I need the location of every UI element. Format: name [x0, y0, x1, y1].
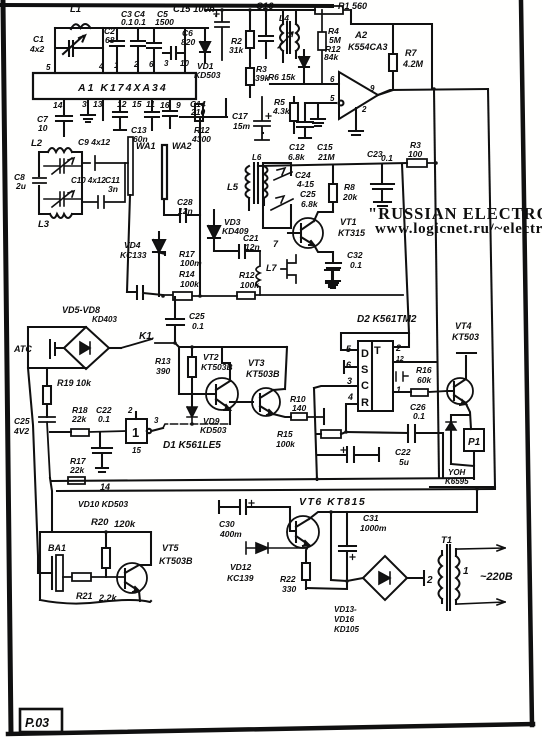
svg-text:R1 560: R1 560 — [338, 1, 367, 11]
svg-text:4x2: 4x2 — [29, 44, 44, 54]
svg-text:12: 12 — [117, 99, 127, 109]
wire WA1 down — [127, 195, 130, 292]
svg-text:C12: C12 — [289, 142, 305, 152]
C15 plus sign — [214, 12, 219, 17]
wire D1 out to VD9 dashdot — [163, 424, 230, 428]
capacitor C6 — [163, 28, 185, 73]
C31 plus sign — [350, 555, 355, 560]
svg-text:4: 4 — [98, 62, 104, 71]
svg-text:VT5: VT5 — [162, 543, 180, 553]
svg-text:A2: A2 — [354, 30, 368, 41]
diode VD3 — [208, 210, 220, 251]
junction dot R2 rail — [248, 8, 252, 12]
junction dot opamp out — [432, 87, 436, 91]
wire R22 to bridge — [306, 512, 363, 589]
svg-text:D2 K561TM2: D2 K561TM2 — [357, 314, 417, 325]
svg-text:VD5-VD8: VD5-VD8 — [62, 305, 100, 315]
wire bridge2 to T1 — [407, 571, 424, 585]
wire C9 to WA1 — [82, 156, 128, 170]
svg-text:R16: R16 — [416, 365, 432, 375]
diode VD4 zener — [153, 232, 165, 296]
transistor VT4 — [447, 378, 473, 404]
svg-text:D: D — [361, 348, 369, 360]
border frame bottom — [8, 724, 533, 734]
VT6 emitter down — [306, 545, 309, 563]
long vertical x200 — [199, 133, 201, 296]
FET VT7 — [281, 255, 296, 283]
resistor R13 390 — [188, 347, 196, 407]
antenna bar WA2 — [162, 145, 167, 199]
resistor R4 5M — [318, 10, 326, 84]
resistor R19 10k — [43, 368, 51, 417]
D1 output bubble — [147, 428, 163, 433]
svg-text:84k: 84k — [324, 52, 339, 62]
resistor R3b 39k — [246, 64, 254, 97]
svg-text:VD12: VD12 — [230, 562, 252, 572]
wire WA2 to C28 — [164, 199, 180, 215]
op-amp input wire lower with bubble — [305, 101, 344, 106]
svg-text:VD4: VD4 — [124, 240, 141, 250]
svg-text:4300: 4300 — [191, 134, 211, 144]
resistor R12 — [237, 292, 403, 299]
resistor R5 — [290, 97, 298, 133]
svg-text:C22: C22 — [395, 447, 411, 457]
wire collector to C31 — [346, 512, 348, 546]
VT4 emitter to relay — [451, 404, 471, 464]
svg-text:4-15: 4-15 — [296, 179, 314, 189]
svg-text:C15 100n: C15 100n — [173, 4, 215, 15]
transistor VT5 — [117, 563, 147, 593]
svg-text:0.1: 0.1 — [350, 260, 362, 270]
svg-text:6: 6 — [346, 360, 352, 370]
bridge bottom wire — [28, 367, 86, 369]
svg-text:3: 3 — [154, 416, 159, 425]
VT2 emitter down — [229, 409, 231, 424]
junction dot C16 rail — [264, 8, 268, 12]
svg-text:VT4: VT4 — [455, 321, 472, 331]
svg-text:KD105: KD105 — [334, 625, 359, 634]
resistor R22 330 — [302, 563, 310, 589]
capacitor C5 — [147, 28, 161, 73]
svg-text:ATC: ATC — [13, 344, 32, 354]
svg-text:C30: C30 — [219, 519, 235, 529]
ground x255 — [254, 120, 256, 122]
wire pin4 to C26 — [346, 432, 408, 433]
left vertical x52 — [50, 478, 52, 532]
small box right of L5 — [263, 163, 291, 228]
svg-text:KT503: KT503 — [452, 332, 479, 342]
svg-text:KD403: KD403 — [92, 315, 117, 324]
svg-text:BA1: BA1 — [48, 543, 66, 553]
svg-text:7: 7 — [273, 239, 279, 249]
transistor VT4 internals — [447, 379, 466, 405]
wire R18 row — [50, 431, 71, 433]
capacitor C16 — [259, 10, 273, 58]
svg-text:0.1: 0.1 — [413, 411, 425, 421]
svg-text:VD10 KD503: VD10 KD503 — [78, 499, 128, 509]
capacitor C28 — [180, 209, 200, 222]
resistor R10 140 — [291, 413, 323, 420]
capacitor C11 — [82, 163, 125, 208]
VT1 emitter to C32 — [314, 245, 333, 252]
svg-text:R14: R14 — [179, 269, 195, 279]
transformer L5 — [246, 163, 268, 210]
svg-text:330: 330 — [282, 584, 296, 594]
VT3 collector up — [273, 389, 285, 390]
svg-text:L6: L6 — [252, 153, 262, 162]
transistor VT3 internals — [260, 390, 273, 415]
svg-text:22k: 22k — [69, 465, 85, 475]
wire top supply rail y10 — [205, 9, 315, 11]
relay bottom wire — [451, 451, 474, 479]
border frame right — [521, 1, 532, 725]
svg-text:T1: T1 — [441, 535, 452, 546]
svg-text:WA2: WA2 — [172, 141, 192, 151]
resistor R20 120k vertical — [102, 532, 110, 577]
svg-text:2: 2 — [395, 343, 401, 353]
op-amp ground stub — [349, 108, 363, 135]
resistor R8 20k — [329, 165, 337, 212]
svg-text:4V2: 4V2 — [13, 426, 29, 436]
transistor VT5 internals — [125, 565, 139, 592]
junction dot C31 bottom — [345, 579, 349, 583]
junction dot rail A x317 — [315, 477, 319, 481]
resistor R16 60k — [411, 389, 447, 396]
junction dot VT2 base rail — [190, 345, 194, 349]
D1 pin2 stub — [135, 412, 137, 419]
svg-text:11: 11 — [146, 99, 155, 109]
L4 tap arrow — [278, 32, 293, 48]
svg-text:6: 6 — [149, 60, 154, 69]
svg-text:T: T — [374, 345, 381, 357]
svg-text:R22: R22 — [280, 574, 296, 584]
long mid rail y165 — [258, 163, 407, 166]
svg-text:D1 K561LE5: D1 K561LE5 — [163, 440, 221, 451]
svg-text:R6 15k: R6 15k — [268, 72, 297, 82]
feedback box R7 — [378, 24, 432, 95]
VT5 loop bottom wire — [40, 532, 151, 604]
resistor R3 100 — [407, 159, 436, 167]
junction dot x200 node — [198, 294, 202, 298]
mic ATC element — [50, 340, 64, 358]
svg-text:KT503B: KT503B — [201, 362, 233, 372]
svg-text:C31: C31 — [363, 513, 379, 523]
relay P1 box — [464, 429, 484, 451]
svg-text:L7: L7 — [266, 263, 277, 273]
capacitor C21 — [214, 245, 260, 258]
capacitor C30 — [219, 500, 290, 531]
svg-text:S: S — [361, 364, 368, 376]
capacitor under A1 x170 — [163, 99, 177, 128]
svg-text:2: 2 — [127, 406, 133, 415]
svg-text:C9 4x12: C9 4x12 — [78, 137, 110, 147]
capacitor C15 electrolytic — [215, 10, 229, 60]
svg-text:R12: R12 — [239, 270, 255, 280]
long rail A — [52, 478, 474, 481]
svg-text:R19 10k: R19 10k — [57, 378, 92, 388]
svg-text:15: 15 — [132, 99, 142, 109]
svg-text:9: 9 — [370, 84, 375, 93]
capacitor C26 — [408, 425, 443, 478]
bottom wire to V3 — [430, 486, 495, 488]
svg-text:16: 16 — [160, 100, 170, 110]
svg-text:0.1: 0.1 — [98, 414, 110, 424]
svg-text:C32: C32 — [347, 250, 363, 260]
svg-text:C25: C25 — [300, 189, 316, 199]
svg-text:100k: 100k — [180, 279, 200, 289]
small cap at pin1 — [396, 372, 408, 381]
svg-text:L3: L3 — [38, 219, 50, 230]
svg-text:C25: C25 — [189, 311, 205, 321]
svg-text:2: 2 — [361, 105, 367, 114]
tick bar right of R10 — [323, 409, 325, 424]
svg-text:390: 390 — [156, 366, 170, 376]
svg-text:2.2k: 2.2k — [98, 593, 118, 603]
capacitor C7 — [56, 99, 72, 136]
capacitor C11v variable lower — [44, 191, 82, 207]
svg-text:1: 1 — [463, 566, 469, 577]
tank L2 loop — [39, 148, 82, 218]
svg-text:KD503: KD503 — [200, 425, 227, 435]
capacitor C25 4V2 — [39, 417, 55, 478]
capacitor C23 to ground — [371, 164, 394, 206]
svg-text:4.2M: 4.2M — [402, 59, 424, 69]
capacitor C3 — [110, 28, 124, 73]
svg-text:1: 1 — [114, 61, 119, 70]
capacitor C1 variable — [56, 36, 103, 57]
D2 feedback loop — [341, 333, 409, 350]
svg-text:0.1: 0.1 — [381, 153, 393, 163]
VT5 loop top wire — [40, 531, 151, 533]
svg-text:140: 140 — [292, 403, 306, 413]
svg-text:C: C — [361, 380, 369, 392]
svg-text:3: 3 — [347, 376, 352, 386]
svg-text:L2: L2 — [31, 138, 43, 149]
transformer T1 — [439, 545, 460, 610]
diode on relay wire — [446, 422, 456, 430]
pin stub A1 bottom x103 — [102, 99, 104, 120]
svg-text:4.3k: 4.3k — [272, 106, 291, 116]
svg-text:3: 3 — [82, 99, 87, 109]
svg-text:K1.: K1. — [139, 331, 155, 342]
svg-text:KC133: KC133 — [120, 250, 147, 260]
svg-text:10: 10 — [38, 123, 48, 133]
resistor R21 2.2k — [63, 573, 125, 581]
svg-text:WA1: WA1 — [136, 141, 156, 151]
VT6 collector to rail — [309, 489, 477, 519]
svg-text:5: 5 — [330, 94, 335, 103]
mic BA1 body — [56, 555, 63, 591]
op-amp output wire — [378, 89, 488, 95]
svg-text:100m: 100m — [180, 258, 202, 268]
wire VT2 to VT3 base — [230, 401, 253, 403]
wire pin5 drop — [54, 28, 56, 73]
svg-text:21M: 21M — [317, 152, 335, 162]
long rail B — [57, 489, 495, 491]
svg-text:L1: L1 — [70, 4, 81, 15]
svg-text:C1: C1 — [33, 34, 44, 44]
VT4 collector supply — [457, 353, 476, 379]
svg-text:R20: R20 — [91, 517, 109, 528]
capacitor under A1 x120 — [113, 99, 127, 130]
op-amp A2 triangle — [339, 72, 378, 119]
svg-text:K6595: K6595 — [445, 477, 469, 486]
svg-text:12n: 12n — [245, 242, 260, 252]
bridge2 inner diode — [379, 572, 390, 584]
wire R1 to opamp supply — [351, 10, 393, 24]
svg-text:6: 6 — [330, 75, 335, 84]
svg-text:13: 13 — [93, 99, 103, 109]
svg-text:R21: R21 — [76, 591, 93, 601]
svg-text:20k: 20k — [342, 192, 358, 202]
capacitor C31 1000u — [339, 546, 356, 581]
svg-text:C15: C15 — [317, 142, 333, 152]
VT5 loop left wire — [39, 532, 41, 600]
long vertical V1 — [402, 164, 409, 333]
junction dot C15 rail — [220, 8, 224, 12]
svg-text:12: 12 — [396, 356, 404, 363]
junction dot VT6 collector rail — [475, 487, 479, 491]
switch K1 — [121, 339, 175, 348]
T1 primary top lead — [457, 545, 505, 551]
junction dot C25 node — [173, 341, 177, 345]
resistor R18 22k — [71, 429, 126, 436]
transistor VT3 — [252, 388, 280, 416]
svg-text:KT503B: KT503B — [246, 369, 280, 379]
transistor VT1 internals — [288, 221, 314, 245]
svg-text:R15: R15 — [277, 429, 293, 439]
svg-text:210: 210 — [190, 107, 205, 117]
antenna bar WA1 — [128, 137, 133, 195]
capacitor C24 — [127, 286, 163, 299]
capacitor C10 variable in L2 — [44, 158, 82, 174]
transistor VT6 — [287, 516, 319, 548]
svg-text:L4: L4 — [279, 13, 289, 23]
svg-text:14: 14 — [53, 100, 63, 110]
svg-text:C17: C17 — [232, 111, 249, 121]
bridge top wire — [28, 326, 86, 328]
svg-text:10: 10 — [180, 59, 189, 68]
IC A1 K174XA34 — [33, 73, 196, 99]
svg-text:R13: R13 — [155, 356, 171, 366]
T1 primary bottom lead — [457, 599, 505, 605]
svg-text:~220B: ~220B — [480, 571, 513, 583]
diode VD1 — [200, 28, 210, 62]
capacitor under A1 x152 — [145, 99, 159, 130]
svg-text:4: 4 — [347, 392, 353, 402]
junction dot VD4 node — [161, 294, 165, 298]
svg-text:3n: 3n — [108, 184, 118, 194]
svg-text:14: 14 — [100, 482, 110, 492]
D2 pin12 wire — [393, 361, 437, 363]
svg-text:400m: 400m — [219, 529, 242, 539]
junction dot VD9 bottom — [190, 422, 194, 426]
junction dot pin4 R15 — [344, 430, 348, 434]
svg-text:P1: P1 — [468, 437, 481, 448]
svg-text:YOH: YOH — [448, 468, 466, 477]
wire top rail above A1 — [55, 27, 208, 29]
transistor VT1 — [293, 218, 323, 248]
long vertical V3 — [488, 89, 495, 487]
resistor R14 — [163, 292, 237, 300]
left vertical down from bridge — [28, 327, 52, 573]
junction dot R20v node — [104, 530, 108, 534]
diode VD9 — [187, 407, 197, 424]
enclosure rail VT2 VT3 — [175, 343, 287, 394]
svg-text:2: 2 — [133, 60, 139, 69]
capacitor C22 5u — [317, 447, 379, 462]
svg-text:VT6 KT815: VT6 KT815 — [299, 496, 366, 508]
svg-text:1: 1 — [396, 385, 401, 395]
VT2 collector up — [222, 347, 230, 381]
sheet number box P.03 — [20, 709, 62, 732]
wire bridge right to K1 — [109, 347, 121, 349]
svg-text:100k: 100k — [240, 280, 260, 290]
D1 gate box — [126, 419, 147, 443]
mic BA1 — [51, 557, 53, 589]
svg-text:K554CA3: K554CA3 — [348, 42, 388, 52]
svg-text:12n: 12n — [178, 206, 193, 216]
D2 flip-flop box — [358, 341, 393, 411]
inductor L7 — [256, 251, 260, 295]
capacitor C17 electrolytic — [254, 97, 270, 140]
diode bridge VD5-VD8 — [64, 327, 109, 369]
resistor R12 4300 — [195, 104, 203, 121]
wire R15 row — [317, 432, 346, 434]
svg-text:R7: R7 — [405, 48, 417, 58]
svg-text:C25: C25 — [14, 416, 30, 426]
svg-text:1500: 1500 — [155, 17, 174, 27]
resistor R2 — [246, 10, 254, 64]
svg-text:KD503: KD503 — [194, 70, 221, 80]
resistor R1 560 — [300, 6, 351, 14]
C17 plus sign — [266, 114, 271, 119]
svg-text:KC139: KC139 — [227, 573, 254, 583]
svg-text:0.1: 0.1 — [121, 17, 133, 27]
svg-text:68: 68 — [105, 35, 115, 45]
svg-text:100: 100 — [408, 149, 422, 159]
svg-text:15m: 15m — [233, 121, 250, 131]
C30 plus sign — [249, 501, 254, 506]
diode bridge VD13-VD16 — [363, 556, 407, 600]
resistor R17 22k on rail — [68, 477, 85, 484]
long vertical V2 — [434, 89, 439, 478]
svg-text:1: 1 — [132, 425, 139, 440]
svg-text:A1 K174XA34: A1 K174XA34 — [77, 82, 168, 94]
C22 5u plus sign — [341, 448, 346, 453]
svg-text:VT3: VT3 — [248, 358, 265, 368]
svg-text:15: 15 — [132, 446, 141, 455]
diode VD12 — [246, 542, 306, 554]
D2 pin3 wire — [314, 386, 358, 388]
svg-text:100k: 100k — [276, 439, 296, 449]
transistor VT2 — [206, 378, 238, 410]
svg-text:www.logicnet.ru/~electron: www.logicnet.ru/~electron — [375, 221, 542, 237]
svg-text:VD13-: VD13- — [334, 605, 357, 614]
ground under A1 left — [81, 99, 95, 122]
svg-text:9: 9 — [176, 100, 181, 110]
stub dot — [262, 132, 264, 134]
svg-text:6.8k: 6.8k — [301, 199, 319, 209]
svg-text:0.1: 0.1 — [192, 321, 204, 331]
border frame left — [3, 2, 11, 733]
svg-text:820: 820 — [181, 37, 195, 47]
D2 pin4 stub — [346, 404, 358, 432]
border frame top — [1, 5, 332, 6]
svg-text:VT2: VT2 — [203, 352, 219, 362]
svg-text:60k: 60k — [417, 375, 432, 385]
svg-text:3: 3 — [164, 59, 169, 68]
